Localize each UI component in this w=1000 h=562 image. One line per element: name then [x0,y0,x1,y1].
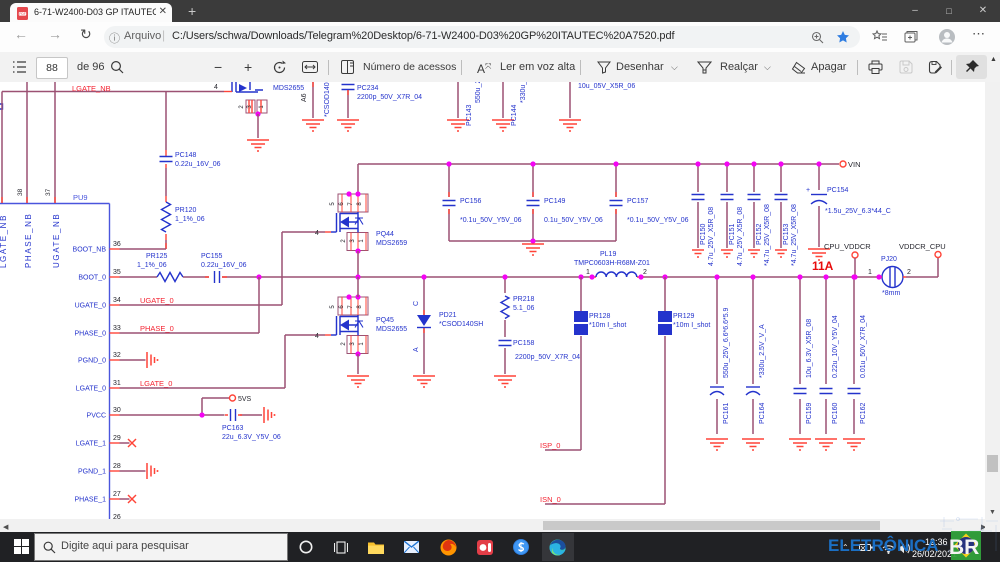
node PHASE link [256,274,261,279]
watermark [938,515,1000,562]
svg-text:PVCC: PVCC [87,413,106,420]
svg-text:A6: A6 [301,93,308,102]
svg-text:32: 32 [113,352,121,359]
scrollbars [0,519,1000,532]
svg-text:PC154: PC154 [827,187,849,194]
svg-text:1_1%_06: 1_1%_06 [175,216,205,223]
svg-text:PGND_0: PGND_0 [78,358,106,365]
wire LGATE_0 to gate [120,335,326,388]
inductor PL19 [589,276,644,278]
resistor PR120 [162,202,171,232]
svg-text:2200p_50V_X7R_04: 2200p_50V_X7R_04 [515,354,580,361]
main switch-node / output rail [259,276,879,278]
diode PD21 [423,277,425,374]
svg-text:PC152: PC152 [756,223,763,245]
capacitor PC156 [448,164,450,241]
svg-text:PC149: PC149 [544,198,566,205]
svg-text:+: + [806,187,810,194]
svg-text:PQ45: PQ45 [376,317,394,324]
wire UGATE_0 to gate [120,232,326,305]
capacitor PC149 [532,164,534,241]
svg-text:PC148: PC148 [175,152,197,159]
pin27 nc [120,498,130,500]
svg-text:PHASE_NB: PHASE_NB [24,213,33,268]
svg-text:BR: BR [949,536,979,559]
node 5VS [230,395,236,401]
ground [247,140,269,151]
pin28 comb [120,470,146,472]
node VDDCR_CPU [935,252,941,258]
svg-text:PR125: PR125 [146,253,168,260]
svg-text:PC155: PC155 [201,253,223,260]
svg-text:PQ44: PQ44 [376,231,394,238]
svg-text:PC164: PC164 [759,402,766,424]
svg-text:*CSOD140SH: *CSOD140SH [439,321,483,328]
pin29 nc [120,442,130,444]
svg-text:PHASE_0: PHASE_0 [74,331,106,338]
svg-text:PC156: PC156 [460,198,482,205]
svg-text:VIN: VIN [848,160,861,169]
svg-text:PR129: PR129 [673,313,695,320]
IC PU9 block [0,204,110,520]
svg-text:BOOT_0: BOOT_0 [78,275,106,282]
svg-text:MDS2659: MDS2659 [376,240,407,247]
capacitor PC159 [799,277,801,434]
svg-text:MDS2655: MDS2655 [273,85,304,92]
tray [842,543,849,552]
svg-text:PC151: PC151 [729,223,736,245]
svg-text:11A: 11A [812,259,834,273]
svg-text:34: 34 [113,297,121,304]
svg-text:UGATE_0: UGATE_0 [140,296,174,305]
svg-text:PR128: PR128 [589,313,611,320]
svg-text:550u_25: 550u_25 [475,82,482,103]
wire PVCC / PC163 / 5VS [120,398,263,415]
svg-text:1: 1 [259,105,265,109]
svg-text:PR120: PR120 [175,207,197,214]
top clipped MOSFET [232,82,263,92]
svg-text:PC162: PC162 [860,402,867,424]
svg-text:35: 35 [113,269,121,276]
svg-text:*10m I_shot: *10m I_shot [589,322,626,329]
svg-text:TMPC0603H-R68M-Z01: TMPC0603H-R68M-Z01 [574,260,650,267]
wire left verticals to PU9 [2,82,55,203]
resistor PR128 + wire ISP_0 [578,274,583,279]
svg-text:2: 2 [239,105,245,109]
svg-text:0.01u_50V_X7R_04: 0.01u_50V_X7R_04 [860,315,867,378]
svg-text:PHASE_0: PHASE_0 [140,324,174,333]
svg-text:0.22u_16V_06: 0.22u_16V_06 [175,161,221,168]
svg-text:PC160: PC160 [832,402,839,424]
wire pin36 BOOT_NB [120,248,167,250]
svg-text:2: 2 [643,269,647,276]
svg-text:LGATE_NB: LGATE_NB [72,84,111,93]
ground [522,244,544,255]
svg-text:22u_6.3V_Y5V_06: 22u_6.3V_Y5V_06 [222,434,281,441]
taskbar icons [299,540,313,554]
svg-text:*CSOD140: *CSOD140 [324,82,331,117]
svg-text:4.7u_25V_X5R_08: 4.7u_25V_X5R_08 [708,207,715,266]
ground [302,120,324,131]
svg-text:31: 31 [113,380,121,387]
svg-text:27: 27 [113,491,121,498]
capacitor PC144 [502,82,504,118]
svg-text:LGATE_0: LGATE_0 [76,386,106,393]
capacitor PC157 [615,164,617,241]
ground [447,120,469,131]
svg-text:C: C [413,301,420,306]
ground [337,120,359,131]
svg-text:UGATE_NB: UGATE_NB [52,213,61,268]
capacitor PC143 [457,82,459,118]
svg-text:ISN_0: ISN_0 [540,495,561,504]
svg-text:PL19: PL19 [600,251,616,258]
svg-text:2: 2 [907,269,911,276]
svg-text:*4.7u_25V_X5R_08: *4.7u_25V_X5R_08 [764,204,771,266]
shared ground rail under PC156/149/157 [449,240,616,242]
ground [494,376,516,387]
ground [559,120,581,131]
svg-text:PC143: PC143 [466,104,473,126]
svg-text:36: 36 [113,241,121,248]
capacitor PC148 [160,157,173,162]
svg-text:33: 33 [113,325,121,332]
svg-text:5VS: 5VS [238,396,252,403]
svg-text:PC161: PC161 [723,402,730,424]
svg-text:0.22u_16V_06: 0.22u_16V_06 [201,262,247,269]
pdf toolbar [0,52,1000,83]
svg-text:0.1u_50V_Y5V_06: 0.1u_50V_Y5V_06 [544,217,603,224]
capacitor PC234 [342,85,355,90]
wire PHASE_0 [120,332,260,334]
resistor PR129 + wire ISN_0 [662,274,667,279]
svg-text:CPU_VDDCR: CPU_VDDCR [824,242,871,251]
svg-text:PC150: PC150 [700,223,707,245]
svg-text:4.7u_25V_X5R_08: 4.7u_25V_X5R_08 [737,207,744,266]
capacitor PC150 [697,164,699,248]
power VDDCR_CPU [906,258,938,277]
svg-text:5.1_06: 5.1_06 [513,305,535,312]
svg-text:PDF: PDF [19,12,25,16]
ground [492,120,514,131]
svg-text:BOOT_NB: BOOT_NB [73,247,107,254]
svg-text:*4.7u_25V_X5R_08: *4.7u_25V_X5R_08 [791,204,798,266]
svg-text:LGATE_NB: LGATE_NB [0,214,8,268]
wire LGATE_NB horizontal [0,104,3,109]
address bar [0,22,1000,53]
capacitor PC151 [726,164,728,248]
capacitor PC154 [818,164,820,247]
wire PGND_0 comb [120,359,146,361]
svg-text:10u_6.3V_X5R_08: 10u_6.3V_X5R_08 [806,319,813,378]
resistor PR218 + capacitor PC158 [504,277,506,374]
svg-text:*330u_2: *330u_2 [520,82,527,103]
svg-text:37: 37 [45,188,52,196]
svg-text:A: A [413,347,420,352]
svg-text:38: 38 [17,188,24,196]
svg-text:ISP_0: ISP_0 [540,441,560,450]
svg-text:PHASE_1: PHASE_1 [74,497,106,504]
svg-text:PD21: PD21 [439,312,457,319]
svg-text:4: 4 [214,84,218,91]
ground [347,376,369,387]
svg-text:29: 29 [113,435,121,442]
node VIN [840,161,846,167]
capacitor PC155 [183,276,259,278]
svg-text:*0.1u_50V_Y5V_06: *0.1u_50V_Y5V_06 [460,217,522,224]
svg-text:550u_25V_6.6*6.6*5.9: 550u_25V_6.6*6.6*5.9 [723,307,730,378]
svg-text:10u_05V_X5R_06: 10u_05V_X5R_06 [578,83,635,90]
svg-text:*1.5u_25V_6.3*44_C: *1.5u_25V_6.3*44_C [825,208,891,215]
svg-text:1: 1 [586,269,590,276]
VIN rail [358,163,839,165]
svg-text:MDS2655: MDS2655 [376,326,407,333]
browser title bar [0,0,1000,22]
svg-text:PU9: PU9 [73,193,88,202]
svg-text:LGATE_0: LGATE_0 [140,379,172,388]
diode PD20 *CSOD140 (clipped) [312,82,314,118]
svg-text:PR218: PR218 [513,296,535,303]
jumper PJ20 [882,267,903,288]
svg-text:LGATE_1: LGATE_1 [76,441,106,448]
svg-text:28: 28 [113,463,121,470]
capacitor PC164 [752,277,754,434]
node CPU_VDDCR [852,252,858,258]
svg-text:PC234: PC234 [357,85,379,92]
svg-text:PC144: PC144 [511,104,518,126]
svg-text:PC159: PC159 [806,402,813,424]
svg-text:2200p_50V_X7R_04: 2200p_50V_X7R_04 [357,94,422,101]
svg-text:*10m I_shot: *10m I_shot [673,322,710,329]
transistor PQ45 [325,297,368,354]
svg-text:4: 4 [315,230,319,237]
svg-text:PGND_1: PGND_1 [78,469,106,476]
svg-text:*0.1u_50V_Y5V_06: *0.1u_50V_Y5V_06 [627,217,689,224]
svg-text:PJ20: PJ20 [881,256,897,263]
svg-text:*330u_2.5V_V_A: *330u_2.5V_V_A [759,324,766,378]
resistor PR125 [120,276,158,278]
wire PC148/PR120 column [165,92,167,250]
svg-text:PC157: PC157 [627,198,649,205]
transistor PQ44 [325,194,368,251]
svg-text:VDDCR_CPU: VDDCR_CPU [899,242,946,251]
svg-text:*8mm: *8mm [882,290,900,297]
svg-text:30: 30 [113,407,121,414]
svg-text:PC163: PC163 [222,425,244,432]
capacitor PC161 [716,277,718,434]
svg-text:UGATE_0: UGATE_0 [75,303,106,310]
svg-text:0.22u_10V_Y5V_04: 0.22u_10V_Y5V_04 [832,315,839,378]
svg-text:PC153: PC153 [783,223,790,245]
ground [413,376,435,387]
svg-text:PC158: PC158 [513,340,535,347]
svg-text:1_1%_06: 1_1%_06 [137,262,167,269]
capacitor PC160 [825,277,827,434]
capacitor PC153 [780,164,782,248]
ground [808,249,830,260]
taskbar [0,532,1000,562]
capacitor PC152 [753,164,755,248]
content : schematic SVG inserted here [0,82,985,519]
capacitor PC162 [853,277,855,434]
svg-text:1: 1 [868,269,872,276]
svg-text:4: 4 [315,333,319,340]
